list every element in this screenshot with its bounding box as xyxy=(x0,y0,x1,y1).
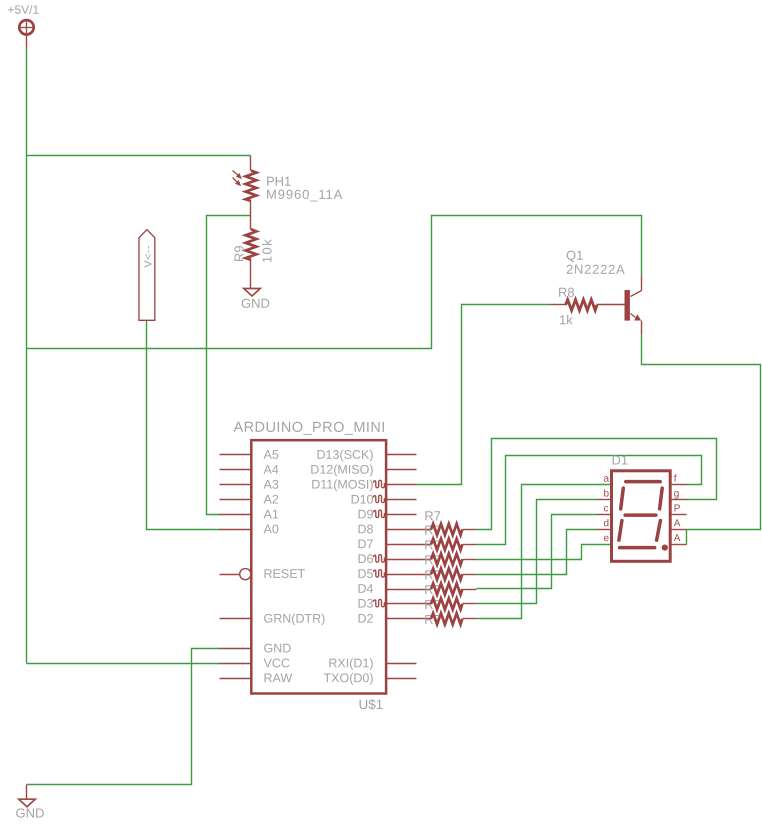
svg-text:R7: R7 xyxy=(424,508,441,523)
svg-text:V<--: V<-- xyxy=(142,245,154,268)
svg-text:D3: D3 xyxy=(358,597,374,611)
svg-text:D9: D9 xyxy=(358,507,374,521)
svg-text:TXO(D0): TXO(D0) xyxy=(323,671,373,685)
svg-text:+5V/1: +5V/1 xyxy=(7,3,39,17)
svg-text:f: f xyxy=(674,474,677,485)
svg-text:A: A xyxy=(674,533,681,544)
svg-text:D7: D7 xyxy=(358,537,374,551)
svg-text:GND: GND xyxy=(263,641,291,655)
svg-text:RXI(D1): RXI(D1) xyxy=(328,656,373,670)
svg-text:D5: D5 xyxy=(358,567,374,581)
svg-text:RAW: RAW xyxy=(263,671,292,685)
svg-text:D11(MOSI): D11(MOSI) xyxy=(311,478,373,492)
svg-text:10k: 10k xyxy=(260,238,275,263)
svg-text:A3: A3 xyxy=(263,478,278,492)
svg-text:A4: A4 xyxy=(263,463,278,477)
svg-text:GRN(DTR): GRN(DTR) xyxy=(263,612,325,626)
svg-text:A: A xyxy=(674,518,681,529)
svg-text:M9960_11A: M9960_11A xyxy=(266,187,343,202)
svg-text:1k: 1k xyxy=(559,312,573,327)
svg-text:P: P xyxy=(674,503,681,514)
svg-text:VCC: VCC xyxy=(263,656,289,670)
svg-text:ARDUINO_PRO_MINI: ARDUINO_PRO_MINI xyxy=(233,420,385,436)
svg-text:GND: GND xyxy=(15,806,44,821)
svg-text:D8: D8 xyxy=(358,522,374,536)
svg-text:A5: A5 xyxy=(263,448,278,462)
svg-text:A1: A1 xyxy=(263,507,278,521)
svg-text:2N2222A: 2N2222A xyxy=(566,262,625,277)
svg-text:U$1: U$1 xyxy=(358,697,383,712)
svg-text:R9: R9 xyxy=(231,245,246,262)
svg-text:c: c xyxy=(603,503,608,514)
svg-text:e: e xyxy=(603,533,609,544)
svg-text:Q1: Q1 xyxy=(566,248,583,263)
svg-text:RESET: RESET xyxy=(263,567,305,581)
svg-text:D10: D10 xyxy=(351,492,374,506)
svg-text:D2: D2 xyxy=(358,612,374,626)
svg-text:R8: R8 xyxy=(558,285,575,300)
svg-text:b: b xyxy=(603,488,609,499)
svg-text:D1: D1 xyxy=(611,453,628,468)
svg-text:D13(SCK): D13(SCK) xyxy=(317,448,374,462)
svg-text:GND: GND xyxy=(241,296,270,311)
svg-text:D6: D6 xyxy=(358,552,374,566)
svg-text:a: a xyxy=(603,474,609,485)
svg-text:d: d xyxy=(603,518,609,529)
svg-text:D12(MISO): D12(MISO) xyxy=(310,463,373,477)
svg-text:g: g xyxy=(674,488,680,499)
svg-text:A0: A0 xyxy=(263,522,278,536)
svg-text:A2: A2 xyxy=(263,492,278,506)
svg-text:D4: D4 xyxy=(358,582,374,596)
